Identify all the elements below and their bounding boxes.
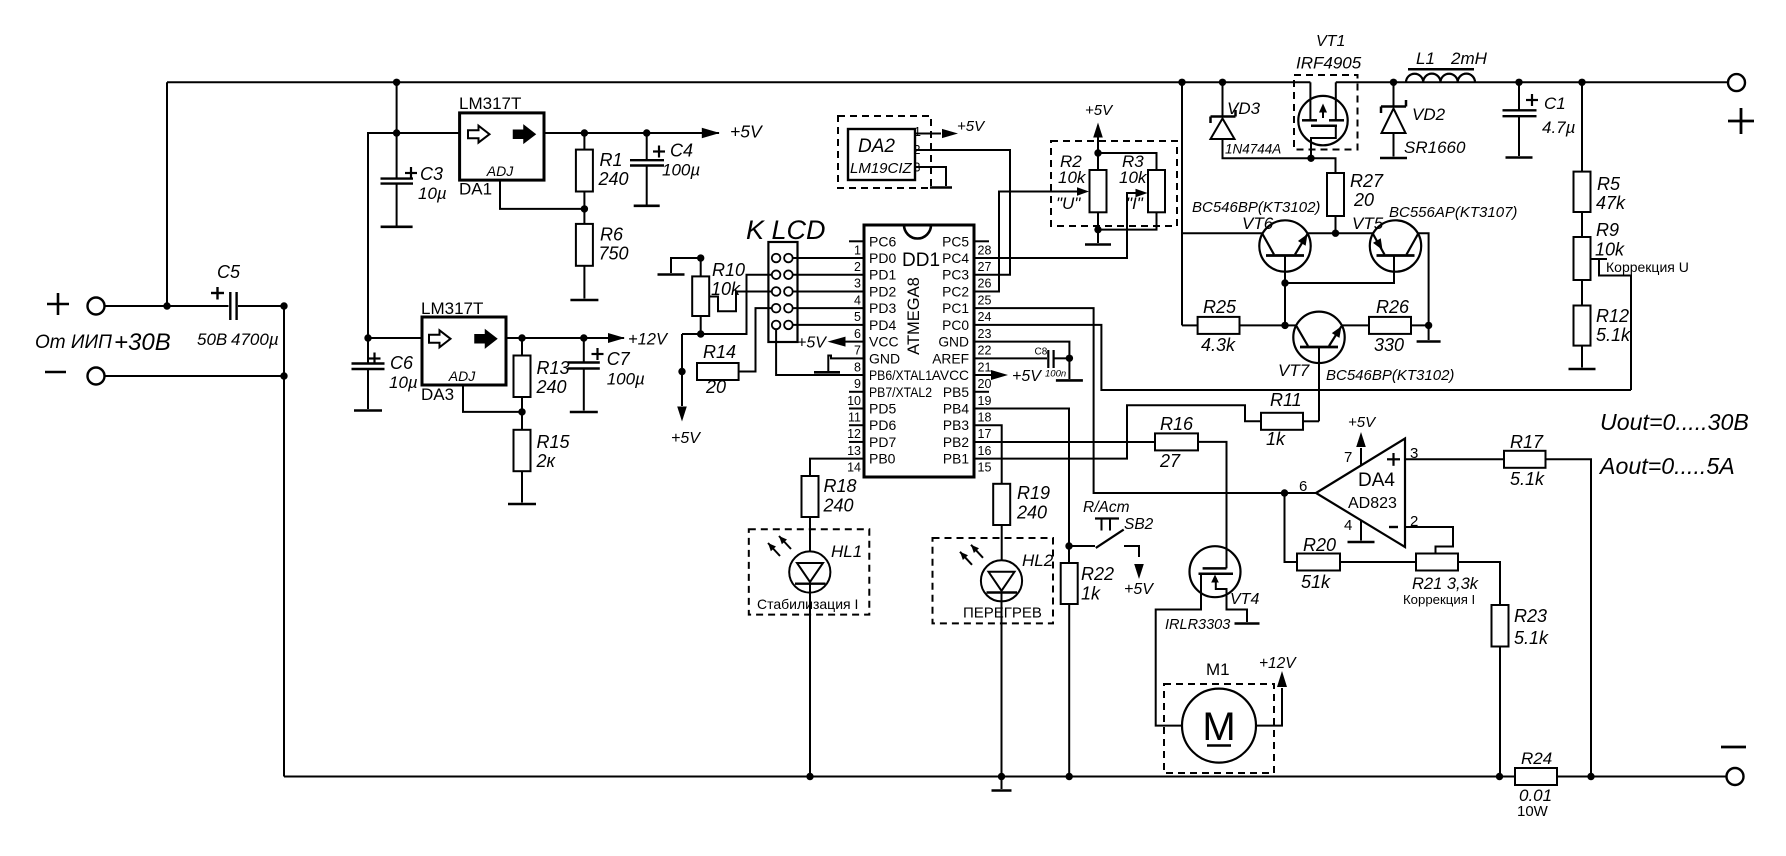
VT6 base bar xyxy=(1266,254,1304,257)
pin 15 label PB1 xyxy=(943,452,969,467)
svg-text:M1: M1 xyxy=(1206,660,1230,679)
VT7 base bar xyxy=(1300,346,1338,349)
text SR1660 xyxy=(1404,138,1466,157)
svg-text:SB2: SB2 xyxy=(1124,516,1154,533)
power arrow +5V SB2 xyxy=(1134,564,1144,579)
wire plus terminal to C5 xyxy=(105,305,229,307)
text 1N4744A xyxy=(1225,142,1281,157)
power arrow +5V DA2 xyxy=(942,129,958,138)
svg-text:GND: GND xyxy=(869,350,900,366)
wire C6 top xyxy=(367,338,369,363)
wire PC4 to R3 wiper xyxy=(974,193,1137,258)
text 47k xyxy=(1596,193,1626,213)
svg-text:10µ: 10µ xyxy=(418,184,447,203)
text DA1 xyxy=(459,180,492,199)
ground pin8 xyxy=(814,371,840,374)
svg-text:100µ: 100µ xyxy=(662,161,700,180)
switch SB2 lever xyxy=(1096,530,1124,548)
ground R12 xyxy=(1569,368,1596,371)
wire DA4 pin6 xyxy=(1285,492,1317,494)
wire minus terminal xyxy=(105,375,285,377)
svg-text:Om ИИП: Om ИИП xyxy=(35,332,112,353)
pin 27 label PC4 xyxy=(942,251,969,266)
wire SB2 right xyxy=(1124,546,1139,557)
svg-text:PB3: PB3 xyxy=(943,418,969,433)
wire R26 gnd stem xyxy=(1428,325,1430,340)
plus sign C3 xyxy=(405,167,417,179)
pin 17 label PB3 xyxy=(943,418,969,433)
node HL2 rail xyxy=(998,773,1005,780)
pin number 10 xyxy=(847,394,861,408)
LED HL2 circle xyxy=(981,560,1022,601)
potentiometer R2 xyxy=(1090,170,1107,212)
wire DA2 pin1 xyxy=(915,133,941,135)
pin number 27 xyxy=(978,260,992,274)
text +12V M1 xyxy=(1259,655,1297,672)
svg-text:4: 4 xyxy=(1344,517,1352,534)
capacitor C4 xyxy=(630,160,664,165)
svg-text:13: 13 xyxy=(847,444,861,458)
pin number 7 xyxy=(1344,449,1352,466)
svg-text:R5: R5 xyxy=(1597,174,1621,194)
text quote U xyxy=(1056,194,1081,213)
diode VD2 bar xyxy=(1381,100,1406,113)
svg-text:10k: 10k xyxy=(1595,240,1625,260)
wire R6 bottom xyxy=(583,266,585,299)
VT6 collector slant xyxy=(1263,234,1275,255)
text Коррекция U xyxy=(1606,259,1689,275)
svg-text:4.7µ: 4.7µ xyxy=(1542,118,1576,137)
svg-text:LM317T: LM317T xyxy=(459,94,521,113)
connector LCD pin circle L2 xyxy=(772,270,781,279)
text 4.7µ C1 xyxy=(1542,118,1576,137)
diode VD3 triangle xyxy=(1211,119,1235,140)
text BC546BP VT6 xyxy=(1192,199,1320,216)
wire VT1 gate lead xyxy=(1311,126,1336,159)
connector LCD pin circle L5 xyxy=(772,321,781,330)
text Стабилизация I xyxy=(757,596,858,612)
wire M1 right xyxy=(1256,688,1282,726)
svg-text:5.1k: 5.1k xyxy=(1510,469,1545,489)
text +5V DA4 xyxy=(1348,414,1377,431)
svg-text:100n: 100n xyxy=(1045,369,1066,380)
wire R26 right xyxy=(1411,324,1429,326)
sensor DA2 box xyxy=(848,129,915,180)
text R26 xyxy=(1376,297,1410,317)
text +5V DA2 xyxy=(957,118,986,135)
svg-text:100µ: 100µ xyxy=(607,370,645,389)
wire C7 top xyxy=(583,338,585,363)
svg-text:R10: R10 xyxy=(712,260,745,280)
svg-text:Uout=0.....30В: Uout=0.....30В xyxy=(1600,409,1749,435)
wire R16 right to VT4 gate xyxy=(1198,442,1227,569)
svg-text:C5: C5 xyxy=(217,262,241,282)
wire R9 wiper tap xyxy=(1591,258,1608,260)
pin 5 label PD3 xyxy=(869,300,896,316)
svg-text:HL2: HL2 xyxy=(1022,551,1054,570)
wire R21 right to R23 xyxy=(1458,562,1500,605)
wire DA3 input xyxy=(368,337,422,339)
text LM317T DA3 xyxy=(421,299,483,318)
svg-text:8: 8 xyxy=(854,360,861,374)
pin number 14 xyxy=(847,461,861,475)
LED HL2 bar xyxy=(987,591,1018,593)
pin 13 label PD7 xyxy=(869,434,896,450)
pin number 16 xyxy=(978,444,992,458)
wire correction U path xyxy=(1599,259,1631,390)
wire top rail right xyxy=(1336,81,1728,83)
capacitor C6 xyxy=(352,364,385,370)
node C8 right xyxy=(1066,355,1073,362)
svg-text:2: 2 xyxy=(854,260,861,274)
resistor R19 xyxy=(993,484,1010,525)
text 5.1k R17 xyxy=(1510,469,1545,489)
wire bottom rail right of R24 xyxy=(1557,776,1727,778)
transistor VT7 circle xyxy=(1293,312,1344,363)
text VT5 xyxy=(1352,214,1384,233)
svg-text:PB1: PB1 xyxy=(943,452,969,467)
node plus junction xyxy=(163,302,170,309)
text 5.1k R12 xyxy=(1596,325,1631,345)
svg-text:C6: C6 xyxy=(390,353,414,373)
svg-text:+5V: +5V xyxy=(730,122,764,142)
svg-text:+5V: +5V xyxy=(1348,414,1377,431)
svg-text:VCC: VCC xyxy=(869,334,899,350)
svg-text:PC0: PC0 xyxy=(942,318,969,333)
svg-text:4700µ: 4700µ xyxy=(231,330,279,349)
svg-text:R21 3,3k: R21 3,3k xyxy=(1412,575,1479,593)
svg-text:240: 240 xyxy=(598,169,629,189)
svg-text:R/Acm: R/Acm xyxy=(1083,499,1130,516)
text ADJ DA3 xyxy=(448,368,476,384)
wire base to R25 node xyxy=(1284,283,1286,325)
text R21 3,3k xyxy=(1412,575,1479,593)
pin 26 label PC3 xyxy=(942,268,969,283)
motor M1 circle xyxy=(1182,689,1256,763)
resistor R10 xyxy=(692,276,709,316)
wire R15 top xyxy=(521,412,523,430)
pin number 7 xyxy=(854,344,861,358)
svg-text:20: 20 xyxy=(978,377,992,391)
wire VT5 emitter wire xyxy=(1336,232,1374,234)
svg-text:+30В: +30В xyxy=(114,329,171,356)
connector LCD pin circle L3 xyxy=(772,287,781,296)
svg-text:25: 25 xyxy=(978,293,992,307)
resistor R1 xyxy=(576,150,593,192)
power arrow +12V xyxy=(608,333,625,343)
wire PB1 to R11 xyxy=(974,405,1261,458)
pin number 28 xyxy=(978,243,992,257)
inductor L1 xyxy=(1406,74,1475,83)
LED HL1 triangle xyxy=(797,563,823,582)
wire VT7 base lead xyxy=(1318,347,1320,421)
svg-text:IRLR3303: IRLR3303 xyxy=(1165,617,1230,633)
wire LCD row 3 to DD1 xyxy=(793,290,864,292)
svg-text:5.1k: 5.1k xyxy=(1596,325,1631,345)
text 2к xyxy=(536,451,557,471)
svg-text:C3: C3 xyxy=(420,164,443,184)
capacitor C3 xyxy=(381,179,414,184)
wire pin 19 stub xyxy=(974,391,989,393)
text R18 xyxy=(824,476,857,496)
wire GND22 xyxy=(974,342,1069,379)
wire PB3 to R19 xyxy=(974,425,1002,484)
pin number 1 xyxy=(854,243,861,257)
transistor VT1 circle xyxy=(1298,96,1347,145)
svg-text:PD2: PD2 xyxy=(869,283,896,299)
svg-text:"U": "U" xyxy=(1056,194,1081,213)
svg-text:R15: R15 xyxy=(537,432,571,452)
ground R26 xyxy=(1417,340,1441,343)
svg-text:VD3: VD3 xyxy=(1227,99,1261,118)
text BC546BP VT7 xyxy=(1326,367,1454,384)
svg-text:240: 240 xyxy=(823,496,854,516)
text R14 xyxy=(703,342,736,362)
svg-text:Aout=0.....5A: Aout=0.....5A xyxy=(1598,453,1735,479)
pin number 3 xyxy=(854,277,861,291)
svg-text:PD1: PD1 xyxy=(869,267,896,283)
pin number 25 xyxy=(978,293,992,307)
text VD3 xyxy=(1227,99,1261,118)
svg-text:L1: L1 xyxy=(1416,49,1435,68)
svg-text:R6: R6 xyxy=(600,225,624,245)
inductor L1 core xyxy=(1408,68,1474,71)
wire R18 to HL1 xyxy=(809,517,811,551)
wire DA4 pin4 stem xyxy=(1360,520,1362,540)
node sense rail xyxy=(1587,773,1594,780)
text R22 xyxy=(1081,564,1114,584)
connector LCD pin circle R5 xyxy=(784,321,793,330)
minus sign output xyxy=(1721,746,1746,749)
motor M1 letter xyxy=(1202,705,1235,749)
ground C6 xyxy=(354,409,382,412)
ground C7 xyxy=(570,411,598,414)
wire DA3 ADJ xyxy=(463,385,522,412)
svg-text:23: 23 xyxy=(978,327,992,341)
text 10µ C3 xyxy=(418,184,447,203)
svg-text:PD7: PD7 xyxy=(869,434,896,450)
text DA3 xyxy=(421,385,454,404)
svg-text:20: 20 xyxy=(1353,190,1374,210)
LED HL2 triangle xyxy=(989,572,1015,591)
svg-text:12: 12 xyxy=(847,427,861,441)
ground pin22 xyxy=(1056,379,1083,382)
wire PB4 to SB2 xyxy=(974,409,1069,547)
svg-text:10W: 10W xyxy=(1517,803,1549,820)
text R12 xyxy=(1596,306,1629,326)
pin 21 label AREF xyxy=(932,351,969,366)
wire VD3 top xyxy=(1222,82,1224,116)
node R22 rail xyxy=(1066,773,1073,780)
LED HL1 dashed box xyxy=(749,529,870,614)
resistor R20 xyxy=(1297,554,1340,571)
svg-text:PB6/XTAL1: PB6/XTAL1 xyxy=(869,367,932,383)
svg-text:ADJ: ADJ xyxy=(486,163,514,179)
pin number DA2-2 xyxy=(914,143,921,157)
svg-text:LM317T: LM317T xyxy=(421,299,483,318)
pin 12 label PD6 xyxy=(869,417,896,433)
svg-text:+12V: +12V xyxy=(1259,655,1297,672)
wire DA1 ADJ xyxy=(500,180,584,209)
svg-text:+5V: +5V xyxy=(1085,102,1114,119)
terminal output plus xyxy=(1728,74,1745,91)
pin number 3 xyxy=(1410,445,1418,462)
svg-text:9: 9 xyxy=(854,377,861,391)
svg-text:330: 330 xyxy=(1374,335,1404,355)
text 100µ C4 xyxy=(662,161,700,180)
wire PC2 to R2 wiper xyxy=(974,192,1079,292)
svg-text:AD823: AD823 xyxy=(1348,495,1397,512)
connector LCD pin circle R2 xyxy=(784,270,793,279)
ground R6 xyxy=(570,299,598,302)
wire R11 right xyxy=(1303,420,1319,422)
svg-text:27: 27 xyxy=(1159,451,1181,471)
resistor R26 xyxy=(1369,317,1411,334)
text DD1 xyxy=(902,250,940,271)
terminal input plus xyxy=(88,298,105,315)
pin 10 label PB7/XTAL2 xyxy=(869,384,932,400)
wire VT1 drain lead xyxy=(1335,82,1337,120)
wire R5 top xyxy=(1581,82,1583,171)
node R23 rail xyxy=(1496,773,1503,780)
pin number 18 xyxy=(978,411,992,425)
transistor VT4 circle xyxy=(1190,546,1241,597)
wire R3 top link xyxy=(1098,153,1157,170)
svg-text:BC556AP(KT3107): BC556AP(KT3107) xyxy=(1389,204,1517,221)
text BC556AP VT5 xyxy=(1389,204,1517,221)
svg-text:R11: R11 xyxy=(1270,390,1302,410)
wire pin 1 stub xyxy=(849,240,864,242)
text 330 xyxy=(1374,335,1404,355)
text 4.3k xyxy=(1201,335,1236,355)
pin number 15 xyxy=(978,461,992,475)
VT1 channel bars xyxy=(1302,119,1344,122)
pin number 2 xyxy=(854,260,861,274)
resistor R23 xyxy=(1492,605,1509,647)
pin number 4 xyxy=(1344,517,1352,534)
pin number 11 xyxy=(848,411,861,425)
text 4700µ xyxy=(231,330,279,349)
svg-text:"I": "I" xyxy=(1126,194,1144,213)
svg-text:PB0: PB0 xyxy=(869,451,896,467)
svg-text:R26: R26 xyxy=(1376,297,1410,317)
wire R14 right to LCD4 xyxy=(739,308,772,371)
capacitor C6 label xyxy=(390,353,414,373)
wire SB2 left contact xyxy=(1069,545,1095,547)
connector K LCD box xyxy=(768,242,797,342)
DA1 input open arrow xyxy=(468,126,490,143)
wire R13 bottom xyxy=(521,397,523,412)
wire minus down to bottom rail xyxy=(283,376,285,777)
node VD3 top xyxy=(1219,79,1226,86)
power arrow +12V M1 xyxy=(1277,671,1287,687)
wire DA4 pin7 stem xyxy=(1360,448,1362,465)
node C4 top xyxy=(643,129,650,136)
power arrow +5V DA4 xyxy=(1356,432,1366,447)
resistor R17 xyxy=(1504,451,1546,468)
wire pin 12 stub xyxy=(849,424,864,426)
svg-text:2к: 2к xyxy=(536,451,557,471)
wire feed to DA3 xyxy=(368,133,397,338)
svg-text:PB4: PB4 xyxy=(943,402,969,417)
svg-text:3: 3 xyxy=(854,277,861,291)
text +12V xyxy=(628,331,669,349)
svg-text:R20: R20 xyxy=(1303,535,1336,555)
text 100µ C7 xyxy=(607,370,645,389)
text 750 xyxy=(599,244,629,264)
text 10k R2 xyxy=(1058,168,1087,187)
power arrow +5V AVCC xyxy=(991,370,1008,380)
text 100n xyxy=(1045,369,1066,380)
text 1k R22 xyxy=(1081,584,1101,604)
svg-text:DA2: DA2 xyxy=(858,136,895,157)
wire R19 to HL2 xyxy=(1001,525,1003,560)
svg-text:R22: R22 xyxy=(1081,564,1114,584)
wire DA3 output xyxy=(506,337,624,339)
text ADJ DA1 xyxy=(486,163,514,179)
wire R13 top xyxy=(521,338,523,356)
text +5V R14 xyxy=(671,430,701,447)
plus sign output xyxy=(1728,108,1754,134)
svg-text:1k: 1k xyxy=(1081,584,1101,604)
plus sign C1 xyxy=(1526,94,1538,106)
text R23 xyxy=(1514,606,1547,626)
wire DA4 out to R20 xyxy=(1285,493,1298,562)
wire VT5 base lead xyxy=(1285,256,1394,284)
text Aout xyxy=(1598,453,1735,479)
opamp minus sign xyxy=(1389,526,1398,528)
pin 14 label PB0 xyxy=(869,451,896,467)
DA3 input open arrow xyxy=(429,330,451,347)
pin number 6 xyxy=(854,327,861,341)
node R10 bottom xyxy=(697,330,704,337)
svg-text:PD4: PD4 xyxy=(869,317,896,333)
pin 6 label PD4 xyxy=(869,317,896,333)
text SB2 xyxy=(1124,516,1154,533)
pin number 6 xyxy=(1299,478,1307,495)
pin number 24 xyxy=(978,310,992,324)
wire HL1 to rail xyxy=(809,584,811,777)
svg-text:VT6: VT6 xyxy=(1242,214,1274,233)
node R2 bottom xyxy=(1094,226,1101,233)
terminal input minus xyxy=(88,368,105,385)
wire R25 right xyxy=(1240,324,1286,326)
LED HL2 arrows xyxy=(960,545,983,565)
IC DD1 box xyxy=(864,225,974,477)
wire top rail left xyxy=(167,81,1310,83)
wire VT6 base lead xyxy=(1284,256,1286,284)
VT1 gate bar xyxy=(1311,124,1337,127)
wire R25 left xyxy=(1182,324,1198,326)
text R17 xyxy=(1510,432,1544,452)
resistor R13 xyxy=(514,356,531,398)
motor M1 dashed box xyxy=(1164,684,1274,773)
ground LCD pin1 xyxy=(658,273,685,276)
connector LCD pin circle L4 xyxy=(772,304,781,313)
wire PB2 to R16 xyxy=(974,441,1155,443)
node SB2 R22 xyxy=(1065,542,1072,549)
pot R2 R3 dashed box xyxy=(1051,141,1177,226)
pin number 2 xyxy=(1410,513,1418,530)
node R27 emitters xyxy=(1332,230,1339,237)
DA1 output filled arrow xyxy=(514,126,536,143)
wire gate node to R27 xyxy=(1311,158,1336,173)
capacitor C1 label xyxy=(1544,94,1566,113)
node C1 top xyxy=(1515,79,1522,86)
node R1 R6 ADJ xyxy=(581,205,588,212)
pin number 26 xyxy=(978,277,992,291)
svg-text:C8: C8 xyxy=(1035,347,1048,358)
